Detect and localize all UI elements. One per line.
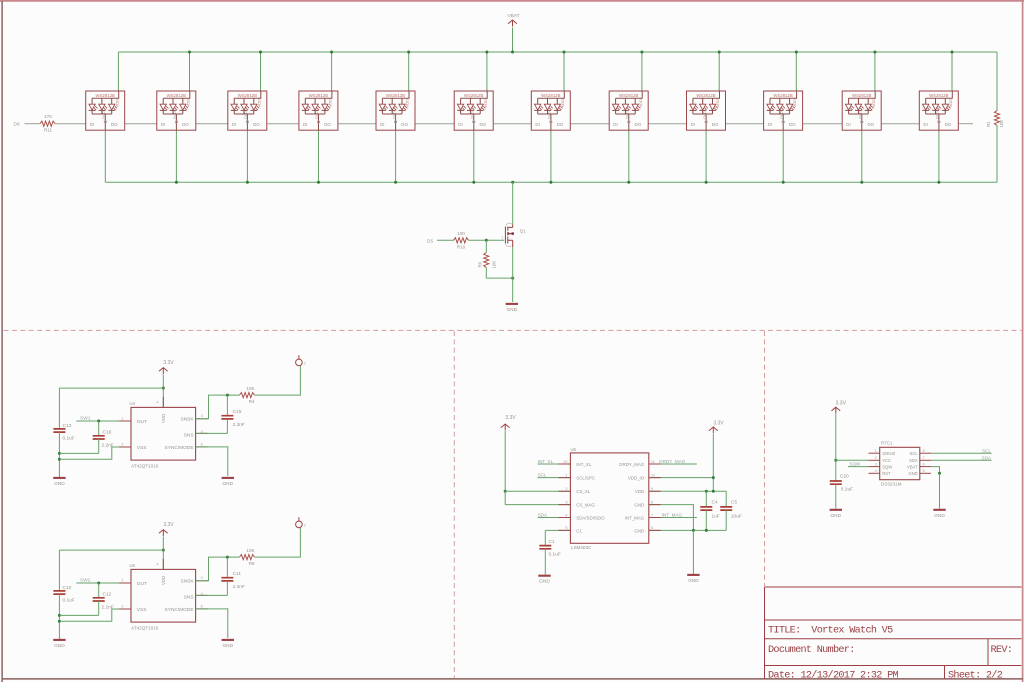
svg-text:C11: C11 bbox=[233, 571, 242, 577]
wire VBAT pin to GND bbox=[931, 467, 940, 474]
IC RTC1 DS3231M bbox=[880, 447, 920, 479]
junction gate/R6 bbox=[485, 239, 488, 242]
junction VDD_IO/3.3V bbox=[712, 476, 715, 479]
svg-text:6: 6 bbox=[923, 462, 925, 466]
svg-text:C16: C16 bbox=[103, 429, 112, 435]
junction top bus LED7 bbox=[563, 51, 566, 54]
svg-text:VSS: VSS bbox=[137, 607, 147, 613]
wire GND drop LED4 bbox=[318, 130, 320, 182]
svg-text:SDA: SDA bbox=[982, 456, 992, 461]
svg-text:2.2nF: 2.2nF bbox=[233, 584, 245, 590]
resistor R4 bbox=[240, 393, 255, 398]
wire SYNC/MODE of U4 to GND bbox=[196, 447, 228, 476]
wire GND drop LED6 bbox=[473, 130, 475, 182]
svg-text:DRDY_MAG: DRDY_MAG bbox=[619, 462, 644, 467]
svg-text:3: 3 bbox=[565, 500, 567, 504]
svg-text:3: 3 bbox=[201, 576, 203, 580]
junction RTC GND bbox=[938, 472, 941, 475]
junction VDD/3.3V bbox=[712, 490, 715, 493]
junction 3.3V/C20 bbox=[834, 459, 837, 462]
wire down to C1 bbox=[544, 530, 546, 546]
LED driver LED5 WS2812B bbox=[376, 91, 415, 130]
wire VDD drop LED2 bbox=[189, 52, 191, 91]
LED driver LED4 WS2812B bbox=[299, 91, 338, 130]
wire VDD drop LED4 bbox=[331, 52, 333, 91]
svg-text:DS3231M: DS3231M bbox=[881, 482, 902, 487]
junction top bus LED12 bbox=[951, 51, 954, 54]
svg-text:3.3V: 3.3V bbox=[163, 360, 174, 366]
svg-text:10K: 10K bbox=[492, 261, 497, 269]
svg-text:VDD: VDD bbox=[161, 576, 166, 585]
wire CS_MAG bbox=[505, 504, 570, 506]
svg-text:7: 7 bbox=[651, 513, 653, 517]
wire LED10 DO to LED11 DI bbox=[803, 123, 843, 125]
junction VBAT/top bus bbox=[511, 51, 514, 54]
supply 3.3V for U5 bbox=[159, 530, 168, 537]
svg-text:C5: C5 bbox=[731, 499, 737, 505]
wire VDD drop LED7 bbox=[563, 52, 565, 91]
wire GND pin8 bbox=[649, 505, 694, 531]
wire VDD drop LED8 bbox=[641, 52, 643, 91]
capacitor C13 bbox=[53, 429, 65, 432]
junction top bus LED8 bbox=[640, 51, 643, 54]
wire C20 to GND bbox=[835, 484, 837, 508]
svg-text:VSS: VSS bbox=[137, 445, 147, 451]
wire GND net down bbox=[692, 530, 694, 574]
svg-text:SNSK: SNSK bbox=[181, 579, 195, 585]
svg-text:4: 4 bbox=[875, 469, 877, 473]
wire C5 bottom bbox=[725, 510, 727, 530]
frame bottom border bbox=[2, 678, 1023, 680]
junction bottom bus LED8 bbox=[627, 181, 630, 184]
svg-text:11: 11 bbox=[651, 460, 655, 464]
pin stub right RTC1 bbox=[920, 466, 931, 468]
LED driver LED3 WS2812B bbox=[228, 91, 267, 130]
wire LED6 DO to LED7 DI bbox=[493, 123, 531, 125]
ground below C1 bbox=[538, 575, 550, 577]
svg-text:SCL/SPC: SCL/SPC bbox=[576, 476, 595, 481]
svg-text:OUT: OUT bbox=[137, 419, 147, 425]
wire SDA bbox=[538, 517, 571, 519]
svg-text:3: 3 bbox=[201, 414, 203, 418]
wire VDD drop LED12 bbox=[951, 52, 953, 91]
LED driver LED9 WS2812B bbox=[687, 91, 726, 130]
wire down to CS_MAG bbox=[504, 491, 506, 504]
title block left line bbox=[764, 587, 766, 679]
svg-text:GND: GND bbox=[506, 307, 517, 313]
wire RTC GND down bbox=[939, 473, 941, 508]
pin stubs of U5 bbox=[119, 559, 208, 609]
junction bottom bus LED12 bbox=[937, 181, 940, 184]
junction source/GND net bbox=[511, 277, 514, 280]
wire C15 bottom bbox=[226, 419, 228, 433]
svg-text:2: 2 bbox=[565, 487, 567, 491]
junction GND net bbox=[692, 529, 695, 532]
wire GND drop LED10 bbox=[782, 130, 784, 182]
svg-text:SCL: SCL bbox=[982, 448, 991, 453]
wire SCL out bbox=[931, 452, 992, 454]
wire VDD drop LED5 bbox=[408, 52, 410, 91]
wire VDD_IO bbox=[649, 477, 714, 479]
svg-text:OUT: OUT bbox=[137, 581, 147, 587]
svg-text:GND: GND bbox=[688, 578, 699, 584]
junction bottom bus LED4 bbox=[317, 181, 320, 184]
ground below Q1 bbox=[506, 303, 518, 305]
junction C15/R4 bbox=[226, 394, 229, 397]
title block REV separator bbox=[987, 639, 989, 666]
svg-text:GND: GND bbox=[934, 513, 945, 519]
svg-text:470: 470 bbox=[44, 114, 52, 119]
wire down to C12 bbox=[98, 583, 100, 598]
title block line above Date bbox=[765, 665, 1022, 667]
wire DRDY_MAG bbox=[649, 463, 697, 465]
svg-text:6: 6 bbox=[201, 604, 203, 608]
junction VSS return bbox=[58, 620, 61, 623]
svg-text:INT_MAG: INT_MAG bbox=[662, 513, 683, 518]
svg-text:SNSK: SNSK bbox=[181, 417, 195, 423]
svg-text:4: 4 bbox=[156, 562, 158, 566]
svg-text:C10: C10 bbox=[63, 585, 72, 591]
junction top bus LED4 bbox=[330, 51, 333, 54]
resistor R1 bbox=[994, 111, 999, 126]
capacitor C16 bbox=[93, 436, 105, 439]
IC U5 AT42QT1010 bbox=[131, 569, 196, 622]
svg-text:GND: GND bbox=[908, 471, 917, 476]
wire LED8 DO to LED9 DI bbox=[648, 123, 686, 125]
svg-text:TITLE: Vortex Watch V5: TITLE: Vortex Watch V5 bbox=[768, 625, 893, 637]
svg-text:SQW: SQW bbox=[849, 462, 861, 467]
pin stub left RTC1 bbox=[869, 472, 880, 474]
wire SW2 to OUT pin bbox=[76, 582, 131, 584]
wire VSS of U5 to GND rail bbox=[59, 609, 131, 621]
svg-text:SNS: SNS bbox=[184, 594, 194, 600]
svg-text:8: 8 bbox=[651, 500, 653, 504]
wire GND drop LED1 bbox=[104, 130, 106, 182]
svg-text:0.1uF: 0.1uF bbox=[63, 436, 75, 442]
wire SCL bbox=[538, 477, 571, 479]
svg-text:3: 3 bbox=[875, 462, 877, 466]
wire down to C20 bbox=[835, 460, 837, 481]
svg-text:GND: GND bbox=[830, 513, 841, 519]
wire VDD top bus bbox=[118, 51, 997, 53]
svg-text:32KHZ: 32KHZ bbox=[882, 451, 895, 456]
junction C11/R9 bbox=[226, 556, 229, 559]
svg-text:C12: C12 bbox=[103, 591, 112, 597]
svg-text:1: 1 bbox=[565, 473, 567, 477]
svg-text:C1: C1 bbox=[576, 528, 582, 533]
wire INT_MAG bbox=[649, 517, 697, 519]
svg-text:GND: GND bbox=[54, 481, 65, 487]
svg-text:REV:: REV: bbox=[991, 645, 1013, 656]
wire VDD drop LED10 bbox=[795, 52, 797, 91]
LED driver LED2 WS2812B bbox=[157, 91, 196, 130]
frame left border bbox=[1, 1, 3, 682]
wire to C4 bbox=[705, 491, 707, 507]
wire VDD drop LED1 bbox=[117, 52, 119, 91]
wire GND drop LED9 bbox=[705, 130, 707, 182]
svg-text:GND: GND bbox=[539, 579, 550, 585]
wire VCC bbox=[836, 459, 869, 461]
wire LED1 DO to LED2 DI bbox=[125, 123, 157, 125]
ground below C10 bbox=[53, 639, 65, 641]
wire SDA out bbox=[931, 459, 992, 461]
junction bottom bus LED2 bbox=[175, 181, 178, 184]
svg-text:GND: GND bbox=[222, 481, 233, 487]
wire down to C10 bbox=[58, 550, 60, 591]
wire GND drop LED2 bbox=[175, 130, 177, 182]
title block Sheet separator bbox=[944, 666, 946, 679]
IC U4 AT42QT1010 bbox=[131, 407, 196, 460]
pin stub left RTC1 bbox=[869, 466, 880, 468]
junction drain/bottom bus bbox=[511, 181, 514, 184]
capacitor C20 bbox=[830, 481, 842, 484]
svg-text:1: 1 bbox=[121, 578, 123, 582]
wire GND drop LED12 bbox=[938, 130, 940, 182]
wire GND drop LED11 bbox=[861, 130, 863, 182]
wire down to C16 bbox=[98, 421, 100, 436]
svg-text:10: 10 bbox=[651, 473, 655, 477]
svg-text:C15: C15 bbox=[233, 409, 242, 415]
LED driver LED12 WS2812B bbox=[919, 91, 958, 130]
wire R9 to touch pad bbox=[255, 528, 301, 557]
svg-text:7: 7 bbox=[923, 456, 925, 460]
wire LED12 DO stub bbox=[958, 123, 973, 125]
wire GND drop LED7 bbox=[550, 130, 552, 182]
wire 3.3V to VDD rows bbox=[712, 434, 714, 491]
wire INT_XL bbox=[538, 463, 571, 465]
svg-text:C4: C4 bbox=[712, 499, 718, 505]
wire GND bottom bus bbox=[105, 181, 997, 183]
wire LED2 DO to LED3 DI bbox=[196, 123, 228, 125]
svg-text:100: 100 bbox=[457, 231, 465, 236]
svg-text:0.1uF: 0.1uF bbox=[841, 487, 853, 493]
svg-text:SNS: SNS bbox=[184, 432, 194, 438]
wire SYNC/MODE of U5 to GND bbox=[196, 609, 228, 638]
pin stub right RTC1 bbox=[920, 459, 931, 461]
ground below C20 bbox=[830, 509, 842, 511]
svg-text:1: 1 bbox=[875, 449, 877, 453]
wire 3.3V to CS_XL bbox=[504, 431, 506, 491]
wire top bus to R1 bbox=[996, 52, 998, 111]
svg-text:VBAT: VBAT bbox=[507, 13, 519, 19]
junction top bus LED2 bbox=[188, 51, 191, 54]
ground below U4 SYNC bbox=[222, 477, 234, 479]
svg-text:1: 1 bbox=[501, 236, 503, 240]
pin stubs of U4 bbox=[119, 397, 208, 447]
svg-text:RST: RST bbox=[882, 471, 891, 476]
svg-text:U5: U5 bbox=[129, 563, 135, 568]
svg-text:GND: GND bbox=[634, 528, 644, 533]
wire LED5 DO to LED6 DI bbox=[415, 123, 454, 125]
svg-text:8: 8 bbox=[923, 449, 925, 453]
svg-text:3.3V: 3.3V bbox=[713, 420, 724, 426]
junction CS_XL bbox=[504, 490, 507, 493]
svg-text:RTC1: RTC1 bbox=[881, 441, 893, 446]
pin stub left RTC1 bbox=[869, 459, 880, 461]
svg-text:10K: 10K bbox=[246, 548, 255, 553]
svg-text:R9: R9 bbox=[249, 561, 255, 566]
wire to C15 bbox=[226, 395, 228, 416]
svg-text:2: 2 bbox=[304, 361, 306, 365]
wire R6 to Q1 source bbox=[486, 277, 512, 279]
junction 3.3V rail U4 bbox=[162, 387, 165, 390]
svg-text:R4: R4 bbox=[249, 399, 255, 404]
junction bottom bus LED11 bbox=[860, 181, 863, 184]
wire D5 to R10 bbox=[437, 239, 454, 241]
wire D6 to R11 bbox=[25, 123, 41, 125]
svg-text:LSM303C: LSM303C bbox=[571, 545, 592, 550]
wire VDD row bbox=[649, 490, 726, 492]
svg-text:Q1: Q1 bbox=[520, 229, 526, 234]
svg-text:Document Number:: Document Number: bbox=[768, 644, 855, 656]
wire VDD drop LED3 bbox=[260, 52, 262, 91]
wire C12 to GND rail bbox=[59, 614, 98, 616]
wire 3.3V to U4 VDD bbox=[162, 388, 164, 407]
title block line below TITLE bbox=[765, 638, 1022, 640]
ground below RTC1 bbox=[933, 509, 945, 511]
svg-text:R10: R10 bbox=[457, 245, 466, 250]
touch pad connector pad P2 bbox=[296, 359, 303, 366]
svg-text:U4: U4 bbox=[129, 401, 135, 406]
svg-text:SCL: SCL bbox=[910, 451, 919, 456]
wire SNSK to R4 bbox=[196, 395, 240, 419]
svg-text:1: 1 bbox=[121, 416, 123, 420]
svg-text:3.3V: 3.3V bbox=[836, 400, 847, 406]
wire VSS of U4 to GND rail bbox=[59, 447, 131, 459]
wire Q1 source to GND bbox=[512, 247, 514, 302]
svg-text:GND: GND bbox=[222, 643, 233, 649]
svg-text:SYNC/MODE: SYNC/MODE bbox=[165, 445, 194, 451]
svg-text:D6: D6 bbox=[14, 121, 20, 127]
resistor R6 bbox=[484, 253, 489, 268]
wire to C5 bbox=[725, 491, 727, 507]
svg-text:SCL: SCL bbox=[538, 473, 547, 478]
svg-text:GND: GND bbox=[634, 503, 644, 508]
wire LED7 DO to LED8 DI bbox=[570, 123, 609, 125]
svg-text:VDD: VDD bbox=[161, 414, 166, 423]
wire GND drop LED3 bbox=[246, 130, 248, 182]
svg-text:VDD_IO: VDD_IO bbox=[628, 476, 645, 481]
svg-text:R6: R6 bbox=[478, 261, 483, 267]
svg-text:4: 4 bbox=[156, 400, 158, 404]
wire C13 to GND bbox=[58, 432, 60, 478]
junction top bus LED11 bbox=[873, 51, 876, 54]
ground below U5 SYNC bbox=[222, 639, 234, 641]
wire GND drop LED8 bbox=[628, 130, 630, 182]
supply VBAT arrow bbox=[508, 20, 517, 27]
svg-text:2: 2 bbox=[304, 523, 306, 527]
junction top bus LED10 bbox=[795, 51, 798, 54]
junction SW1/C16 bbox=[97, 420, 100, 423]
wire R1 to bottom bus bbox=[996, 125, 998, 182]
wire C10 to GND bbox=[58, 594, 60, 640]
svg-text:VBAT: VBAT bbox=[907, 464, 918, 469]
svg-text:C1: C1 bbox=[549, 539, 555, 545]
junction bottom bus LED5 bbox=[394, 181, 397, 184]
wire VBAT stem bbox=[512, 28, 514, 53]
svg-text:SQW: SQW bbox=[882, 464, 892, 469]
ground below U6 bbox=[687, 574, 699, 576]
svg-text:1uF: 1uF bbox=[712, 514, 720, 520]
svg-text:C13: C13 bbox=[63, 423, 72, 429]
pin stub right RTC1 bbox=[920, 452, 931, 454]
junction C16 return bbox=[58, 452, 61, 455]
svg-text:GND: GND bbox=[54, 643, 65, 649]
svg-text:2: 2 bbox=[121, 604, 123, 608]
svg-text:12: 12 bbox=[563, 460, 567, 464]
junction top bus LED3 bbox=[259, 51, 262, 54]
wire SNS pin bbox=[196, 594, 228, 596]
svg-text:SYNC/MODE: SYNC/MODE bbox=[165, 607, 194, 613]
svg-text:AT42QT1010: AT42QT1010 bbox=[131, 464, 159, 469]
svg-text:0.1uF: 0.1uF bbox=[63, 598, 75, 604]
svg-text:4: 4 bbox=[565, 513, 567, 517]
junction bottom bus LED9 bbox=[705, 181, 708, 184]
wire down to C13 bbox=[58, 388, 60, 429]
svg-text:Date: 12/13/2017 2:32 PM: Date: 12/13/2017 2:32 PM bbox=[768, 669, 899, 681]
svg-text:INT_MAG: INT_MAG bbox=[625, 516, 645, 521]
LED driver LED11 WS2812B bbox=[842, 91, 881, 130]
junction bottom bus LED6 bbox=[472, 181, 475, 184]
svg-text:AT42QT1010: AT42QT1010 bbox=[131, 626, 159, 631]
svg-text:0.1uF: 0.1uF bbox=[549, 552, 561, 558]
wire SW1 to OUT pin bbox=[76, 420, 131, 422]
wire LED3 DO to LED4 DI bbox=[267, 123, 299, 125]
svg-text:2: 2 bbox=[121, 442, 123, 446]
wire 3.3V to U5 VDD bbox=[162, 550, 164, 569]
junction bottom bus LED7 bbox=[549, 181, 552, 184]
svg-text:2: 2 bbox=[875, 456, 877, 460]
svg-text:DRDY_MAG: DRDY_MAG bbox=[659, 459, 685, 464]
svg-text:R1: R1 bbox=[986, 121, 991, 127]
junction top bus LED5 bbox=[407, 51, 410, 54]
junction VSS return bbox=[58, 458, 61, 461]
transistor Q1 N-MOSFET bbox=[505, 225, 512, 248]
svg-text:INT_XL: INT_XL bbox=[538, 459, 554, 464]
title block line above TITLE bbox=[765, 619, 1022, 621]
capacitor C5 bbox=[720, 507, 732, 510]
junction top bus LED9 bbox=[718, 51, 721, 54]
capacitor C10 bbox=[53, 591, 65, 594]
junction C4 bottom bbox=[705, 529, 708, 532]
svg-text:CS_MAG: CS_MAG bbox=[576, 503, 595, 508]
LED driver LED10 WS2812B bbox=[764, 91, 803, 130]
junction top bus LED6 bbox=[485, 51, 488, 54]
svg-text:CS_XL: CS_XL bbox=[576, 489, 590, 494]
IC U6 LSM303C bbox=[570, 453, 648, 543]
resistor R9 bbox=[240, 555, 255, 560]
junction bottom bus LED3 bbox=[246, 181, 249, 184]
svg-text:SDA: SDA bbox=[909, 458, 918, 463]
resistor R11 bbox=[40, 121, 55, 126]
svg-text:D5: D5 bbox=[427, 238, 433, 244]
wire SNSK to R9 bbox=[196, 557, 240, 581]
LED driver LED7 WS2812B bbox=[531, 91, 570, 130]
svg-text:INT_XL: INT_XL bbox=[576, 462, 591, 467]
wire R4 to touch pad bbox=[255, 366, 301, 395]
frame right border bbox=[1022, 0, 1024, 682]
supply 3.3V left of U6 bbox=[501, 424, 510, 431]
wire C1 to GND bbox=[544, 549, 546, 575]
dashed separator vertical right bbox=[764, 331, 766, 586]
wire R10 to Q1 gate bbox=[469, 239, 505, 241]
wire R6 to source net bbox=[485, 268, 487, 279]
junction 3.3V rail U5 bbox=[162, 549, 165, 552]
wire SNS pin bbox=[196, 432, 228, 434]
LED driver LED6 WS2812B bbox=[454, 91, 493, 130]
svg-text:10uF: 10uF bbox=[731, 514, 742, 520]
svg-text:U6: U6 bbox=[570, 447, 576, 452]
